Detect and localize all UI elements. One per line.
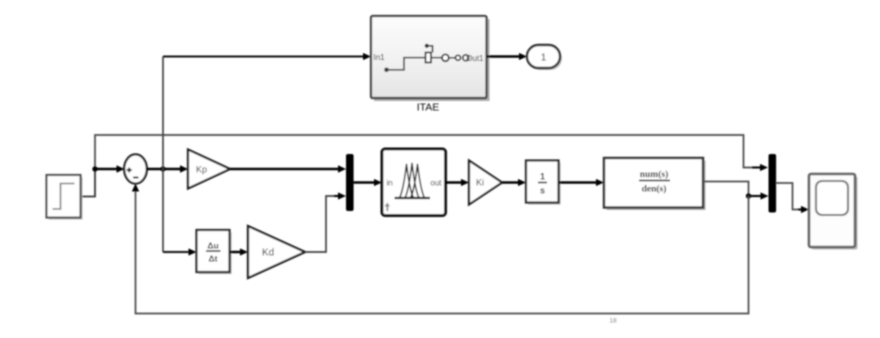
node sum output branch — [160, 166, 165, 171]
svg-text:Δt: Δt — [209, 254, 218, 264]
svg-text:1: 1 — [541, 53, 547, 64]
mux right — [769, 154, 777, 213]
wire into ITAE subsystem — [163, 53, 371, 60]
wire derivative to Kd — [230, 248, 249, 255]
label ITAE — [417, 102, 440, 114]
wire step output to branch — [81, 169, 96, 197]
node feedback branch junction — [746, 193, 751, 198]
svg-text:s: s — [540, 186, 545, 196]
mux left — [346, 154, 354, 211]
label small bottom — [609, 318, 617, 325]
subsystem ITAE — [371, 16, 490, 101]
wire sum output to Kp — [147, 165, 188, 172]
svg-text:In1: In1 — [374, 53, 386, 62]
wire Kp output to mux — [230, 165, 346, 172]
svg-text:Kp: Kp — [196, 165, 207, 175]
svg-text:Kd: Kd — [262, 248, 274, 259]
wire into derivative block — [163, 248, 197, 255]
wire Kd output to mux — [305, 192, 346, 252]
integrator block 1/s — [526, 161, 561, 205]
svg-text:Out1: Out1 — [466, 54, 484, 63]
wire mux to fuzzy controller — [354, 179, 382, 186]
wire fuzzy to Ki — [446, 179, 470, 186]
scope block — [809, 174, 858, 250]
transfer function block num(s)/den(s) — [604, 158, 706, 210]
fuzzy logic controller block — [382, 149, 446, 216]
gain Ki — [469, 161, 502, 205]
wire vertical branch to ITAE and to derivative — [162, 57, 164, 253]
svg-text:out: out — [430, 179, 442, 188]
wire ITAE to outport — [487, 53, 528, 60]
wire right mux output to scope — [776, 183, 809, 213]
gain Kp — [188, 150, 230, 189]
gain Kd — [248, 226, 305, 278]
wire into sum — [95, 165, 125, 172]
svg-text:Ki: Ki — [476, 178, 484, 188]
step source block — [47, 175, 83, 220]
svg-text:1: 1 — [540, 172, 545, 182]
svg-text:ITAE: ITAE — [417, 102, 440, 114]
svg-text:in: in — [387, 179, 393, 188]
wire into right mux second input — [749, 192, 769, 199]
svg-text:18: 18 — [609, 318, 617, 325]
sum junction — [124, 154, 147, 183]
outport 1 — [527, 45, 562, 70]
wire Ki to integrator — [502, 179, 526, 186]
svg-text:Δu: Δu — [207, 241, 218, 251]
wire transfer function output jog — [703, 182, 749, 197]
wire branch up to top distribution line to right mux — [95, 135, 768, 171]
wire integrator to transfer function — [559, 179, 605, 186]
derivative block du/dt — [197, 230, 232, 274]
svg-text:num(s): num(s) — [640, 169, 669, 180]
wire feedback loop to sum — [132, 184, 749, 314]
node branch junction — [92, 166, 97, 171]
svg-text:den(s): den(s) — [642, 184, 667, 195]
